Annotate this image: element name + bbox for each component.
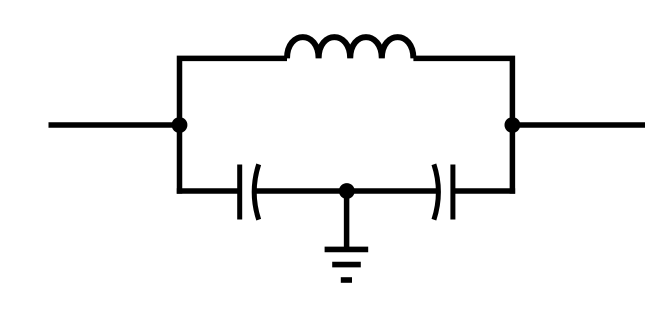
- node: right junction: [505, 117, 521, 133]
- wire: bottom rail right segment: [453, 188, 516, 194]
- wire: bottom rail left segment: [177, 188, 240, 194]
- capacitor C2: [434, 164, 453, 219]
- node: left junction: [172, 117, 188, 133]
- capacitor C1: [240, 164, 259, 219]
- wire: left vertical branch, top rail and right vertical branch: [180, 58, 288, 193]
- ground: [325, 249, 369, 280]
- wire: bottom rail middle segment: [255, 188, 439, 194]
- inductor L1: [287, 37, 413, 58]
- node: center junction: [339, 183, 355, 199]
- wire: left input lead: [49, 122, 180, 128]
- wire: right output lead: [512, 122, 645, 128]
- wire: top rail right segment and right vertical branch: [413, 58, 512, 193]
- wire: ground stem: [344, 191, 350, 250]
